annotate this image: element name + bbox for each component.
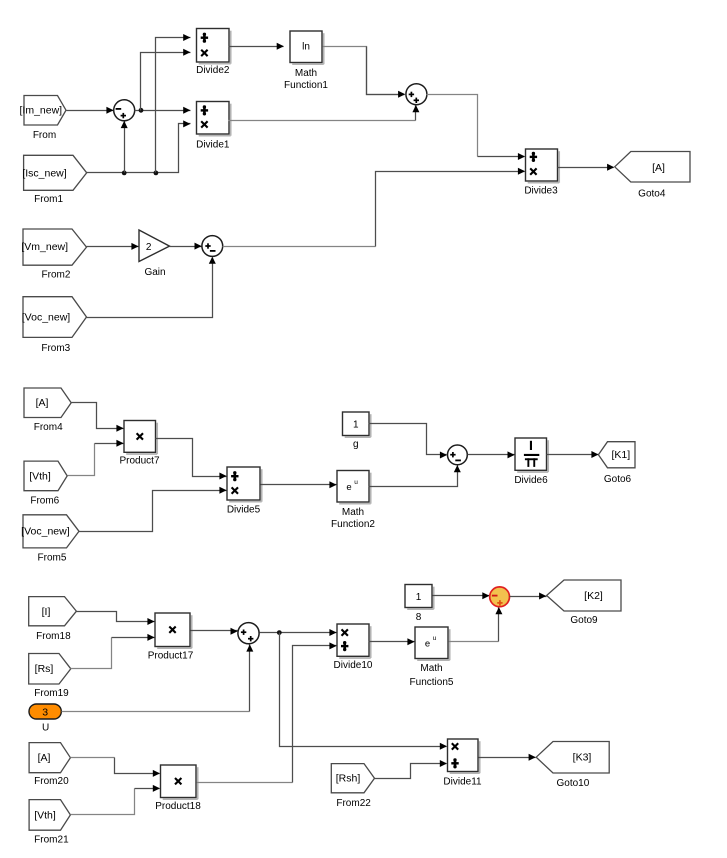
svg-text:[K2]: [K2] bbox=[584, 590, 603, 602]
wire From4 to Product7 top bbox=[72, 403, 124, 432]
wire branch up to Divide2 times input bbox=[141, 49, 191, 111]
svg-text:g: g bbox=[353, 439, 359, 450]
svg-text:Divide5: Divide5 bbox=[227, 505, 261, 516]
wire Sum6 to Goto9 bbox=[510, 593, 547, 600]
wire From1 trunk bbox=[87, 120, 191, 172]
svg-text:From20: From20 bbox=[34, 776, 69, 787]
svg-text:U: U bbox=[42, 722, 49, 733]
svg-text:Divide2: Divide2 bbox=[196, 65, 230, 76]
svg-text:[K1]: [K1] bbox=[611, 449, 630, 461]
svg-text:[I]: [I] bbox=[42, 606, 51, 618]
wire Sum4 to Divide6 bbox=[468, 451, 515, 458]
svg-text:Gain: Gain bbox=[144, 267, 165, 278]
wire branch up to Sum1 plus input bbox=[121, 121, 128, 173]
wire Math Function5 to Sum6 bottom bbox=[449, 607, 503, 641]
wire Math Function2 to Sum4 bottom bbox=[369, 465, 461, 486]
svg-text:Goto10: Goto10 bbox=[556, 778, 589, 789]
wire Product7 to Divide5 top bbox=[156, 439, 227, 480]
svg-text:[Isc_new]: [Isc_new] bbox=[22, 167, 66, 179]
gain block Gain (2) bbox=[139, 230, 170, 278]
svg-text:Product18: Product18 bbox=[155, 801, 201, 812]
sum junction Sum4 bbox=[448, 445, 468, 465]
svg-text:Math: Math bbox=[342, 507, 364, 518]
svg-text:From2: From2 bbox=[42, 269, 71, 280]
wire From19 to Product17 bottom bbox=[71, 634, 155, 669]
from tag From20 [A] bbox=[29, 743, 70, 787]
svg-text:Goto9: Goto9 bbox=[570, 615, 598, 626]
goto tag Goto9 [K2] bbox=[547, 580, 621, 626]
from tag From4 [A] bbox=[24, 388, 71, 433]
sum junction Sum1 bbox=[114, 100, 135, 121]
svg-text:u: u bbox=[354, 479, 358, 486]
svg-text:u: u bbox=[433, 635, 437, 642]
svg-text:Function1: Function1 bbox=[284, 80, 328, 91]
wire Gain to Sum3 bbox=[170, 243, 202, 250]
svg-text:e: e bbox=[425, 639, 430, 650]
divide block Divide10 bbox=[334, 624, 373, 671]
svg-text:Goto4: Goto4 bbox=[638, 189, 666, 200]
junction node at Sum1 branch bbox=[122, 171, 127, 176]
svg-text:[Vth]: [Vth] bbox=[29, 470, 51, 482]
svg-text:Product7: Product7 bbox=[119, 456, 159, 467]
sum junction Sum6 (highlighted) bbox=[490, 587, 510, 607]
math function block Math Function2 (e^u) bbox=[331, 471, 375, 530]
svg-text:From22: From22 bbox=[336, 798, 371, 809]
svg-text:From1: From1 bbox=[34, 194, 63, 205]
svg-text:[A]: [A] bbox=[38, 752, 51, 764]
divide block Divide6 (1/u icon) bbox=[514, 438, 548, 486]
svg-text:Goto6: Goto6 bbox=[604, 474, 632, 485]
math function block Math Function5 (e^u) bbox=[410, 627, 454, 688]
wire From20 to Product18 top bbox=[71, 758, 161, 777]
sum junction Sum5 bbox=[238, 623, 259, 644]
wire Divide6 to Goto6 bbox=[547, 451, 599, 458]
wire constant g to Sum4 bbox=[369, 424, 448, 459]
sum junction Sum2 bbox=[406, 84, 427, 105]
wire Product17 to Sum5 bbox=[191, 628, 238, 635]
divide block Divide5 bbox=[227, 467, 262, 516]
goto tag Goto4 [A] bbox=[615, 152, 690, 200]
wire From21 to Product18 bottom bbox=[71, 785, 161, 815]
svg-text:ln: ln bbox=[302, 41, 310, 52]
svg-text:Divide6: Divide6 bbox=[514, 475, 548, 486]
svg-text:From18: From18 bbox=[36, 631, 71, 642]
wire Sum5 to Divide10 times input bbox=[260, 629, 337, 636]
svg-text:[A]: [A] bbox=[36, 397, 49, 409]
svg-text:From6: From6 bbox=[30, 496, 59, 507]
svg-text:2: 2 bbox=[146, 242, 152, 253]
constant block 8 (1) bbox=[405, 585, 434, 624]
svg-text:[Rsh]: [Rsh] bbox=[336, 773, 361, 785]
wire Divide5 to Math Function2 bbox=[261, 481, 337, 488]
from tag From1 [Isc_new] bbox=[22, 155, 86, 205]
wire From22 to Divide11 divide input bbox=[375, 760, 448, 779]
wire constant 8 to Sum6 bbox=[433, 592, 490, 599]
math function block Math Function1 (ln) bbox=[284, 31, 328, 91]
svg-text:[K3]: [K3] bbox=[573, 752, 592, 764]
svg-text:1: 1 bbox=[353, 420, 359, 431]
constant block g (1) bbox=[343, 412, 371, 450]
from tag From6 [Vth] bbox=[24, 461, 67, 507]
constant block U (3) bbox=[29, 704, 61, 733]
from tag From19 [Rs] bbox=[29, 654, 71, 699]
svg-text:From19: From19 bbox=[34, 688, 69, 699]
svg-text:From4: From4 bbox=[34, 422, 63, 433]
junction node after Sum1 bbox=[139, 108, 144, 113]
from tag From2 [Vm_new] bbox=[21, 229, 86, 280]
wire Divide11 to Goto10 bbox=[479, 754, 536, 761]
wire Sum2 to Divide3 top bbox=[427, 95, 526, 161]
svg-text:8: 8 bbox=[416, 612, 422, 623]
from tag From [Im_new] bbox=[19, 96, 66, 141]
svg-text:[Vth]: [Vth] bbox=[34, 809, 56, 821]
wire Divide1 to Sum2 bottom bbox=[229, 105, 420, 121]
wire From3 to Sum3 bottom bbox=[87, 257, 216, 318]
wire Sum1 output bbox=[135, 107, 191, 114]
wire branch down to Divide11 times input bbox=[280, 633, 448, 750]
divide block Divide3 bbox=[524, 149, 559, 196]
from tag From22 [Rsh] bbox=[331, 764, 374, 809]
svg-text:[Vm_new]: [Vm_new] bbox=[21, 241, 68, 253]
junction node at Divide2 branch bbox=[154, 171, 159, 176]
junction node after Sum5 bbox=[277, 630, 282, 635]
svg-text:Math: Math bbox=[295, 68, 317, 79]
wire Sum3 to Divide3 bottom bbox=[223, 168, 526, 247]
product block Product7 bbox=[119, 421, 159, 467]
product block Product17 bbox=[148, 613, 194, 662]
from tag From21 [Vth] bbox=[29, 800, 70, 846]
wire From6 to Product7 bottom bbox=[68, 440, 124, 476]
wire branch up to Divide2 divide input bbox=[156, 34, 191, 173]
svg-text:Math: Math bbox=[420, 663, 442, 674]
svg-text:[Voc_new]: [Voc_new] bbox=[22, 311, 71, 323]
wire From2 to Gain bbox=[87, 243, 139, 250]
svg-text:From3: From3 bbox=[41, 343, 70, 354]
wire Divide10 to Math Function5 bbox=[369, 638, 415, 645]
goto tag Goto6 [K1] bbox=[598, 442, 635, 486]
from tag From3 [Voc_new] bbox=[22, 297, 87, 354]
wire From to Sum1 bbox=[67, 107, 114, 114]
svg-text:Function5: Function5 bbox=[410, 677, 454, 688]
svg-text:Divide1: Divide1 bbox=[196, 140, 230, 151]
divide block Divide1 bbox=[196, 102, 231, 151]
svg-text:Divide3: Divide3 bbox=[524, 185, 558, 196]
product block Product18 bbox=[155, 765, 201, 812]
svg-text:[Im_new]: [Im_new] bbox=[19, 105, 62, 117]
sum junction Sum3 bbox=[202, 236, 223, 257]
svg-text:[A]: [A] bbox=[652, 162, 665, 174]
svg-text:From: From bbox=[33, 130, 56, 141]
wire Product18 to Divide10 divide input bbox=[197, 642, 337, 782]
wire Divide3 to Goto4 bbox=[558, 164, 615, 171]
svg-text:From21: From21 bbox=[34, 835, 69, 846]
svg-text:From5: From5 bbox=[38, 553, 67, 564]
divide block Divide11 bbox=[443, 739, 482, 788]
wire From5 to Divide5 bottom bbox=[79, 487, 227, 532]
wire From18 to Product17 top bbox=[77, 612, 155, 626]
svg-text:Divide10: Divide10 bbox=[334, 660, 373, 671]
from tag From5 [Voc_new] bbox=[21, 515, 79, 564]
svg-text:Product17: Product17 bbox=[148, 651, 194, 662]
svg-text:Divide11: Divide11 bbox=[443, 777, 482, 788]
svg-text:e: e bbox=[346, 482, 351, 493]
svg-text:3: 3 bbox=[42, 706, 48, 718]
wire U to Sum5 bottom bbox=[62, 644, 254, 711]
goto tag Goto10 [K3] bbox=[536, 742, 609, 789]
svg-text:Function2: Function2 bbox=[331, 519, 375, 530]
divide block Divide2 bbox=[196, 29, 231, 77]
wire Divide2 to Math Function1 bbox=[229, 43, 284, 50]
from tag From18 [I] bbox=[29, 597, 77, 642]
svg-text:1: 1 bbox=[416, 592, 422, 603]
wire Math Function1 to Sum2 bbox=[323, 47, 406, 98]
svg-text:[Voc_new]: [Voc_new] bbox=[21, 526, 70, 538]
svg-text:[Rs]: [Rs] bbox=[35, 663, 54, 675]
